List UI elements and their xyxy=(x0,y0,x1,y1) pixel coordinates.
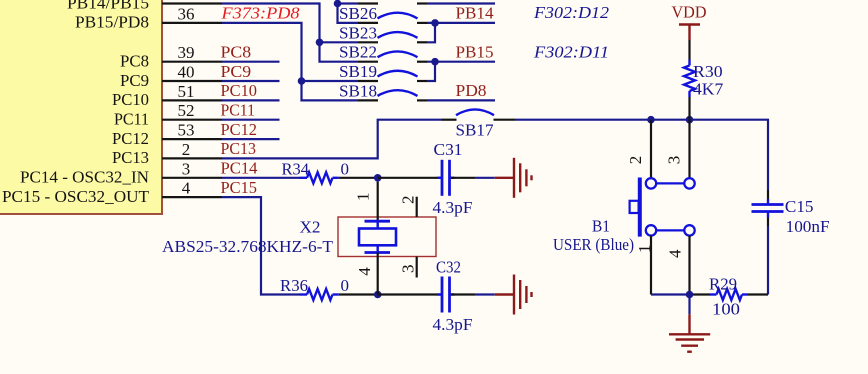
solder bridge SB19 xyxy=(339,62,427,81)
junction X2 pin1 node xyxy=(374,174,382,182)
wire PC8 stub xyxy=(222,61,280,63)
net label PC14 xyxy=(221,159,258,178)
svg-text:53: 53 xyxy=(178,121,195,140)
pin number 4 xyxy=(182,179,191,198)
pin PC14 lead xyxy=(162,177,222,179)
pin PC15 - OSC32_OUT name xyxy=(2,187,150,206)
svg-text:0: 0 xyxy=(341,276,350,295)
pin PC10 lead xyxy=(162,99,222,101)
svg-text:SB19: SB19 xyxy=(339,62,377,81)
pin PC14 - OSC32_IN name xyxy=(20,168,149,187)
free text F302:D12 xyxy=(533,3,610,22)
wire PB15/PD8 to corner xyxy=(222,23,358,101)
junction button pin2 column xyxy=(647,116,655,124)
svg-text:2: 2 xyxy=(626,156,645,165)
svg-text:R36: R36 xyxy=(280,276,308,295)
pin PC13 name xyxy=(112,148,149,167)
junction at PB15/PD8 vertical xyxy=(298,77,306,85)
svg-text:PC8: PC8 xyxy=(120,52,149,71)
pin PB14/PB15 lead xyxy=(162,2,222,4)
svg-text:PC13: PC13 xyxy=(112,148,149,167)
svg-text:PC11: PC11 xyxy=(221,101,256,120)
button B1 pin 4 number xyxy=(665,249,684,258)
wire PC13 up to SB17 row xyxy=(222,120,442,159)
solder bridge SB(top, cut) xyxy=(358,2,427,4)
svg-text:40: 40 xyxy=(178,63,195,82)
button B1 pins 1,4 stubs xyxy=(651,236,690,295)
svg-text:F302:D12: F302:D12 xyxy=(533,3,610,22)
resistor R29 xyxy=(694,275,769,319)
net label PC15 xyxy=(221,178,258,197)
svg-text:PC15 - OSC32_OUT: PC15 - OSC32_OUT xyxy=(2,187,150,206)
svg-text:ABS25-32.768KHZ-6-T: ABS25-32.768KHZ-6-T xyxy=(162,237,334,256)
wire C15 down to bottom xyxy=(767,226,769,295)
pin PC11 lead xyxy=(162,119,222,121)
button B1 pin 3 number xyxy=(664,156,683,165)
pin PC9 lead xyxy=(162,80,222,82)
wire top row stub xyxy=(338,2,359,4)
wire PC9 stub xyxy=(222,80,280,82)
svg-text:3: 3 xyxy=(182,159,191,178)
X2 pin 2 number xyxy=(399,196,418,205)
svg-text:2: 2 xyxy=(182,140,191,159)
wire SB17 to button/VDD/C15 xyxy=(515,120,768,190)
junction bottom ground node xyxy=(686,291,694,299)
svg-text:PC14: PC14 xyxy=(221,159,258,178)
svg-text:PB14/PB15: PB14/PB15 xyxy=(67,0,149,12)
crystal X2 xyxy=(162,182,436,295)
wire branch to SB23 xyxy=(320,41,359,43)
wire PD8 net xyxy=(427,99,495,101)
pin PC8 name xyxy=(120,52,149,71)
svg-text:PC14 - OSC32_IN: PC14 - OSC32_IN xyxy=(20,168,149,187)
wire top row right xyxy=(427,2,495,4)
svg-text:C32: C32 xyxy=(436,258,461,277)
svg-text:PD8: PD8 xyxy=(456,81,487,100)
solder bridge SB22 xyxy=(339,43,427,62)
wire PC12 stub xyxy=(222,138,280,140)
solder bridge SB23 xyxy=(339,23,427,42)
svg-text:PB15: PB15 xyxy=(456,43,494,62)
svg-text:PB14: PB14 xyxy=(456,4,494,23)
pin PC12 lead xyxy=(162,138,222,140)
wire C32 to ground xyxy=(451,293,495,295)
capacitor C15 xyxy=(752,190,830,236)
svg-text:3: 3 xyxy=(399,265,418,274)
svg-text:USER (Blue): USER (Blue) xyxy=(553,235,634,254)
svg-text:F373:PD8: F373:PD8 xyxy=(220,4,300,23)
svg-text:PC10: PC10 xyxy=(112,90,149,109)
svg-text:1: 1 xyxy=(354,193,373,202)
wire PB14 net xyxy=(435,22,495,24)
ground (rotated) at C31 xyxy=(495,158,532,198)
svg-text:PC15: PC15 xyxy=(221,178,258,197)
net label PC10 xyxy=(221,81,258,100)
ground at bottom xyxy=(669,295,710,352)
capacitor C31 xyxy=(433,140,473,217)
net label PC13 xyxy=(221,139,257,158)
svg-text:100: 100 xyxy=(712,300,740,319)
free text F373:PD8 xyxy=(220,4,300,23)
capacitor C32 xyxy=(433,258,473,335)
free text F302:D11 xyxy=(533,43,609,62)
svg-text:4.3pF: 4.3pF xyxy=(433,315,473,334)
ground (rotated) at C32 xyxy=(495,275,532,315)
button B1 pin 2 number xyxy=(626,156,645,165)
pin PC15 lead xyxy=(162,196,222,198)
wire PB14/PB15 to corner xyxy=(222,4,358,62)
net label PC8 xyxy=(221,43,252,62)
svg-text:36: 36 xyxy=(178,4,195,23)
junction top row xyxy=(334,0,342,7)
pin PB15/PD8 name xyxy=(75,13,149,32)
svg-text:2: 2 xyxy=(399,196,418,205)
IC U? yellow body xyxy=(0,0,162,214)
resistor R36 xyxy=(280,276,349,300)
svg-text:4: 4 xyxy=(665,249,684,258)
svg-text:SB17: SB17 xyxy=(456,121,494,140)
wire junction to C31 xyxy=(378,177,441,179)
button B1 xyxy=(553,178,695,254)
svg-text:PC12: PC12 xyxy=(221,120,258,139)
svg-text:R30: R30 xyxy=(693,62,723,81)
svg-text:C15: C15 xyxy=(785,197,814,216)
svg-text:4: 4 xyxy=(182,179,191,198)
pin PC13 lead xyxy=(162,157,222,159)
pin number 39 xyxy=(178,43,195,62)
svg-text:PC11: PC11 xyxy=(114,110,149,129)
net label PB15 xyxy=(456,43,494,62)
svg-text:X2: X2 xyxy=(300,218,321,237)
svg-text:4: 4 xyxy=(355,267,374,276)
junction at PB14/PB15 vertical xyxy=(316,39,324,47)
wire PC15 down to R36 xyxy=(222,197,300,294)
junction PB15 xyxy=(431,58,439,66)
svg-text:52: 52 xyxy=(178,101,195,120)
wire SB22/SB19 right join xyxy=(427,62,435,81)
wire SB26/SB23 right join xyxy=(427,23,435,42)
wire branch to SB19 xyxy=(302,80,359,82)
svg-text:PC10: PC10 xyxy=(221,81,258,100)
wire PC10 stub xyxy=(222,99,280,101)
svg-text:0: 0 xyxy=(341,159,350,178)
resistor R30 xyxy=(684,40,724,120)
pin number 53 xyxy=(178,121,195,140)
button B1 pins 2,3 stubs xyxy=(651,120,690,179)
svg-text:PC12: PC12 xyxy=(112,129,149,148)
svg-text:100nF: 100nF xyxy=(786,217,830,236)
svg-text:SB26: SB26 xyxy=(339,4,377,23)
wire junction to C32 xyxy=(378,293,441,295)
X2 pin 4 number xyxy=(355,267,374,276)
wire PC11 stub xyxy=(222,119,280,121)
pin number 52 xyxy=(178,101,195,120)
resistor R34 xyxy=(282,159,350,183)
junction R30 column xyxy=(686,116,694,124)
svg-text:PB15/PD8: PB15/PD8 xyxy=(75,13,149,32)
wire from top to SB26 xyxy=(338,0,359,23)
pin number 3 xyxy=(182,159,191,178)
wire PC14 to R34 xyxy=(222,177,300,179)
solder bridge SB17 xyxy=(442,109,516,139)
svg-text:R29: R29 xyxy=(709,275,737,294)
wire R34 to junction xyxy=(339,177,378,179)
pin PB14/PB15 name xyxy=(67,0,149,12)
svg-text:SB23: SB23 xyxy=(339,23,377,42)
junction X2 pin4 node xyxy=(374,291,382,299)
junction PB14 xyxy=(431,19,439,27)
solder bridge SB26 xyxy=(339,4,427,23)
pin PC9 name xyxy=(120,71,149,90)
net label PC12 xyxy=(221,120,258,139)
pin number 40 xyxy=(178,63,195,82)
X2 pin 3 number xyxy=(399,265,418,274)
svg-text:3: 3 xyxy=(664,156,683,165)
net label PD8 xyxy=(456,81,487,100)
net label PC11 xyxy=(221,101,256,120)
pin PC10 name xyxy=(112,90,149,109)
pin number 36 xyxy=(178,4,195,23)
wire PB15 net xyxy=(435,61,495,63)
pin PC12 name xyxy=(112,129,149,148)
button B1 pin 1 number xyxy=(635,245,654,254)
wire bottom row xyxy=(651,293,694,295)
pin PB15/PD8 lead xyxy=(162,22,222,24)
svg-text:VDD: VDD xyxy=(672,2,707,21)
pin PC8 lead xyxy=(162,61,222,63)
pin PC11 name xyxy=(114,110,149,129)
svg-text:51: 51 xyxy=(178,82,195,101)
svg-text:C31: C31 xyxy=(434,140,463,159)
svg-text:39: 39 xyxy=(178,43,195,62)
svg-text:SB22: SB22 xyxy=(339,43,377,62)
svg-text:R34: R34 xyxy=(282,159,310,178)
pin number 51 xyxy=(178,82,195,101)
svg-text:F302:D11: F302:D11 xyxy=(533,43,609,62)
svg-text:B1: B1 xyxy=(592,217,610,236)
svg-text:SB18: SB18 xyxy=(339,81,377,100)
X2 pin 1 number xyxy=(354,193,373,202)
wire R36 to junction xyxy=(339,293,378,295)
svg-text:PC8: PC8 xyxy=(221,43,252,62)
svg-text:PC13: PC13 xyxy=(221,139,257,158)
svg-text:PC9: PC9 xyxy=(221,62,252,81)
svg-text:PC9: PC9 xyxy=(120,71,149,90)
wire C31 to ground xyxy=(451,177,495,179)
pin number 2 xyxy=(182,140,191,159)
net label PB14 xyxy=(456,4,494,23)
svg-text:4K7: 4K7 xyxy=(693,80,724,99)
svg-text:4.3pF: 4.3pF xyxy=(433,198,473,217)
power port VDD xyxy=(672,2,707,40)
net label PC9 xyxy=(221,62,252,81)
solder bridge SB18 xyxy=(339,81,427,100)
